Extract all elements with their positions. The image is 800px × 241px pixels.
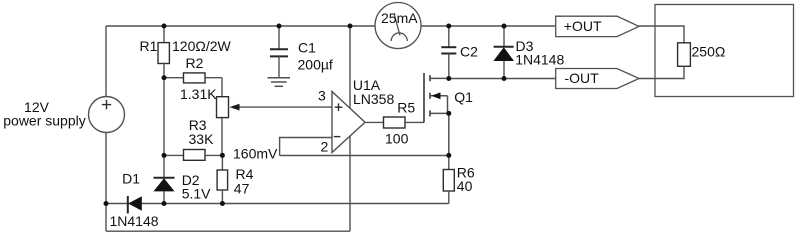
junction source / R6 top	[446, 153, 451, 158]
wire top rail right of meter	[421, 25, 555, 27]
pin 2 wire	[280, 138, 332, 156]
resistor 250ohm	[678, 43, 691, 67]
wiper arrow to op-amp pin 3	[230, 104, 333, 111]
svg-text:100: 100	[385, 130, 409, 146]
svg-text:C2: C2	[460, 44, 478, 60]
resistor R1	[158, 26, 169, 78]
wire +OUT to load	[639, 26, 684, 43]
wire op-amp supply vertical	[349, 26, 351, 231]
svg-text:160mV: 160mV	[233, 146, 278, 162]
potentiometer body	[217, 97, 229, 156]
wire node 160mV row	[280, 155, 449, 157]
junction C2 top on V+ rail	[446, 24, 451, 29]
svg-text:D1: D1	[122, 171, 140, 187]
resistor R5	[365, 117, 424, 128]
ground below C1	[268, 78, 291, 87]
wire top rail	[106, 25, 375, 27]
zener diode D2	[154, 155, 175, 203]
svg-text:250Ω: 250Ω	[692, 44, 726, 60]
resistor R3	[164, 150, 222, 161]
junction left rail / D1 anode row	[104, 201, 109, 206]
wire mid rail R2 junction to R3	[163, 78, 165, 156]
ammeter 25mA	[375, 3, 421, 49]
svg-text:+OUT: +OUT	[564, 18, 602, 34]
resistor R2	[164, 73, 222, 97]
MOSFET Q1	[424, 73, 449, 155]
svg-text:R2: R2	[186, 55, 204, 71]
resistor R6	[443, 155, 454, 203]
svg-text:LN358: LN358	[353, 91, 394, 107]
junction D2 bottom	[162, 201, 167, 206]
junction D3 bottom on drain net	[502, 76, 507, 81]
svg-text:power supply: power supply	[3, 113, 86, 129]
svg-text:1N4148: 1N4148	[110, 213, 159, 229]
svg-text:120Ω/2W: 120Ω/2W	[172, 38, 232, 54]
Q1 body arrow	[431, 92, 440, 99]
svg-text:200µf: 200µf	[298, 56, 333, 72]
resistor R4	[217, 155, 228, 203]
junction R1 top on V+ rail	[162, 24, 167, 29]
load box	[655, 5, 794, 97]
power supply V1 12V	[89, 97, 125, 133]
diode D1	[128, 196, 142, 214]
svg-text:3: 3	[318, 88, 326, 104]
svg-text:-OUT: -OUT	[565, 70, 600, 86]
wire left rail upper	[105, 26, 107, 97]
svg-text:33K: 33K	[189, 131, 215, 147]
connector +OUT	[556, 16, 639, 36]
svg-text:5.1V: 5.1V	[182, 185, 211, 201]
junction op-amp supply on V+ rail	[348, 24, 353, 29]
connector -OUT	[556, 69, 639, 89]
svg-text:2: 2	[321, 139, 329, 155]
junction Q1 drain / C2 bottom	[446, 76, 451, 81]
junction Q1 source stub	[446, 111, 451, 116]
wire drain node row	[449, 78, 556, 80]
node 160mV junction	[220, 153, 225, 158]
wire load to -OUT	[639, 66, 684, 79]
svg-text:R5: R5	[397, 99, 415, 115]
svg-text:R1: R1	[140, 38, 158, 54]
wire left rail lower	[105, 133, 107, 232]
capacitor C1	[270, 26, 288, 78]
svg-text:1N4148: 1N4148	[515, 51, 564, 67]
svg-text:40: 40	[457, 178, 473, 194]
svg-text:47: 47	[234, 181, 250, 197]
op-amp U1A	[332, 92, 365, 153]
wire bottom return	[106, 230, 350, 232]
svg-text:C1: C1	[298, 40, 316, 56]
junction R3 left on divider rail	[162, 153, 167, 158]
junction R4 bottom	[220, 201, 225, 206]
svg-text:Q1: Q1	[454, 89, 473, 105]
wire D1 row	[106, 203, 449, 205]
junction C1 top on V+ rail	[277, 24, 282, 29]
svg-text:25mA: 25mA	[381, 10, 418, 26]
diode D3	[493, 26, 514, 79]
label 12V power supply	[3, 99, 86, 129]
svg-text:1.31K: 1.31K	[180, 86, 217, 102]
capacitor C2	[441, 26, 456, 79]
junction D3 top on V+ rail	[502, 24, 507, 29]
junction R1 bottom / R2 left	[162, 75, 167, 80]
